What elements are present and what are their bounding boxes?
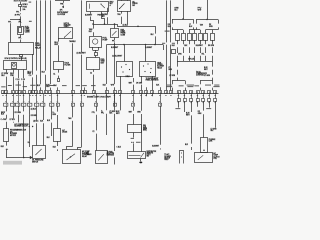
label tick (214, 84, 219, 87)
wire (21, 57, 23, 61)
wire bus feed (94, 25, 156, 27)
pin dot (143, 65, 144, 66)
wire (121, 17, 123, 24)
resistor blower (4, 129, 9, 142)
wire (20, 35, 22, 38)
wire (13, 121, 15, 124)
wire (20, 20, 22, 24)
label tick (206, 107, 211, 110)
wire (58, 45, 60, 61)
label tick (162, 42, 165, 45)
wire below fuse 3 (189, 40, 191, 44)
connector pin (20, 55, 23, 57)
fuse F6 (204, 34, 208, 41)
wire (18, 81, 20, 91)
ignition switch bar (89, 4, 91, 9)
wire pin (101, 12, 103, 14)
wire (196, 27, 198, 29)
wire (57, 141, 59, 146)
node junction (104, 23, 106, 25)
wire (152, 94, 154, 97)
wire (72, 121, 74, 147)
svg-text:BLK/WHT: BLK/WHT (152, 145, 159, 147)
node (70, 156, 71, 157)
wire below fuse 2 (183, 40, 185, 44)
node junction (92, 23, 94, 25)
wire to fuse 3 (189, 30, 191, 33)
wire stub (160, 87, 162, 90)
wire (50, 88, 52, 91)
contact node (100, 4, 101, 5)
ignition switch (87, 2, 109, 12)
fuse F3 (188, 34, 192, 41)
svg-text:UNIT: UNIT (101, 62, 105, 64)
node (133, 142, 134, 143)
label tick (8, 84, 12, 87)
label tick (62, 84, 67, 87)
wire (172, 19, 174, 24)
svg-text:YEL: YEL (201, 53, 204, 55)
wire (18, 107, 20, 112)
wire U-split right (200, 80, 213, 82)
wire split bar 2 (196, 19, 218, 21)
node (7, 149, 8, 150)
node junction (206, 19, 207, 20)
wire (205, 47, 207, 53)
label tick (131, 137, 134, 140)
in-line fuse holder (201, 138, 208, 153)
svg-text:PPL: PPL (92, 112, 95, 114)
wire (43, 107, 45, 121)
wire (196, 20, 198, 24)
wire (57, 107, 59, 112)
fuse element dot (203, 149, 205, 151)
ECM driver circle (13, 64, 16, 67)
wire splice bus (177, 61, 212, 63)
wire pin (63, 1, 65, 3)
wire (155, 36, 157, 44)
starter solenoid (195, 153, 213, 163)
wire (18, 115, 20, 123)
wire (133, 78, 135, 82)
wire (191, 101, 193, 112)
svg-text:C2: C2 (90, 73, 92, 75)
wire pump lead 2 (98, 47, 100, 50)
wire (133, 143, 135, 151)
fuel pump (90, 37, 102, 48)
wire (194, 56, 196, 61)
wire (133, 133, 135, 138)
fuse ECM-B (19, 5, 22, 7)
automotive wiring diagram schematic 220x165 (0, 0, 220, 165)
ground blob (139, 162, 142, 164)
label tick (15, 84, 21, 87)
label tick (91, 84, 96, 87)
label tick (187, 84, 195, 87)
wire (43, 123, 45, 145)
wire (20, 16, 22, 19)
wire (200, 88, 202, 91)
svg-text:C+: C+ (52, 112, 54, 114)
oil pressure switch (118, 1, 131, 12)
svg-text:TIMING: TIMING (86, 154, 92, 156)
wire (32, 77, 34, 90)
wire (58, 38, 60, 41)
wire pump lead 1 (92, 47, 94, 50)
svg-text:PPL: PPL (19, 21, 22, 23)
wire (183, 47, 185, 53)
wire to fuse 1 (177, 30, 179, 33)
svg-text:PPL: PPL (101, 112, 104, 114)
contact node (119, 8, 120, 9)
wire trunk (50, 0, 52, 84)
svg-text:BLK: BLK (47, 137, 50, 139)
pin dot (144, 71, 145, 72)
wire (114, 94, 116, 111)
wire split level2 a (172, 29, 183, 31)
instrument cluster box edge (55, 0, 70, 2)
wire (57, 115, 59, 129)
wire (141, 114, 143, 152)
wire below fuse 5 (200, 40, 202, 44)
wire (141, 85, 143, 91)
wire blower feed 2 (207, 0, 209, 20)
wire (191, 147, 193, 150)
wire splice bar (93, 50, 99, 52)
blower motor resistor (96, 151, 108, 164)
wire (45, 75, 47, 91)
pin dot (125, 64, 126, 65)
ignition coil (128, 125, 142, 133)
label tick (213, 85, 219, 88)
wire (63, 6, 65, 9)
wire (20, 13, 22, 14)
wire split level2 c (206, 29, 219, 31)
node (131, 142, 132, 143)
svg-text:SPLICE: SPLICE (188, 58, 195, 60)
wire (36, 107, 38, 121)
gauge switch (59, 28, 73, 39)
svg-text:BLK/: BLK/ (46, 85, 50, 87)
wire (212, 88, 214, 91)
wire (155, 26, 157, 33)
wire (6, 77, 8, 91)
wire (29, 108, 31, 115)
svg-text:CONN: CONN (121, 34, 126, 36)
wire (189, 47, 191, 53)
wire (203, 114, 205, 137)
wire (121, 11, 123, 14)
wire (81, 107, 83, 148)
svg-text:OIL: OIL (132, 2, 135, 4)
fuse F2 (182, 34, 186, 41)
svg-text:LT GRN: LT GRN (169, 75, 176, 77)
connector tap (172, 50, 176, 54)
pin numbers row 2 (5, 100, 6, 103)
svg-text:WHT: WHT (198, 9, 202, 11)
svg-text:BLK/WHT: BLK/WHT (196, 45, 203, 47)
svg-text:B+: B+ (28, 142, 30, 144)
ECM driver block (12, 63, 17, 69)
label tick (50, 84, 56, 87)
svg-text:CONTROLS: CONTROLS (196, 75, 204, 77)
wire U-split left (172, 80, 185, 82)
svg-text:C2 BLK/WHT: C2 BLK/WHT (112, 55, 122, 57)
svg-text:GRN: GRN (198, 113, 201, 115)
svg-text:(2) BLK/WHT: (2) BLK/WHT (77, 53, 86, 55)
wire (183, 56, 185, 61)
wire PNK/BLK trunk (36, 0, 38, 70)
wire (106, 94, 108, 111)
wire bulkhead rail (2, 93, 219, 95)
wire (6, 149, 8, 158)
connector C100 row 1 terminals (2, 91, 5, 94)
diode A/C (54, 129, 61, 142)
label tick (23, 85, 27, 88)
wire blower feed (183, 0, 185, 19)
fuel pump relay (9, 43, 34, 55)
module bar (129, 155, 141, 157)
svg-text:BLK/: BLK/ (204, 67, 208, 69)
wire (93, 32, 95, 36)
wire (177, 70, 179, 75)
label tick (136, 141, 141, 144)
wire to fuse 2 (183, 30, 185, 33)
wire bend (78, 148, 82, 150)
wire (106, 87, 108, 90)
svg-text:WHT: WHT (46, 86, 50, 88)
wire (6, 115, 8, 119)
wire (93, 75, 95, 91)
svg-text:DIODE: DIODE (62, 132, 67, 134)
svg-text:PNK/: PNK/ (110, 1, 114, 3)
fuse F5 (199, 34, 203, 41)
wire (197, 101, 199, 107)
svg-text:BLK/WHT: BLK/WHT (145, 47, 152, 49)
wire trunk (45, 0, 47, 70)
node (32, 126, 33, 127)
svg-text:J-2 CONNECTOR: J-2 CONNECTOR (14, 130, 27, 132)
label tick (29, 21, 32, 22)
wire (51, 107, 53, 120)
wire (172, 27, 174, 29)
label tick (205, 84, 211, 87)
label tick (172, 42, 175, 45)
wire (106, 114, 108, 135)
wire (212, 61, 214, 67)
label tick (29, 1, 32, 4)
svg-text:HOT IN START: HOT IN START (14, 0, 28, 3)
wire trunk right 2 (170, 0, 172, 42)
wire relay pin 2 (32, 54, 34, 75)
wire (96, 107, 98, 112)
wire (13, 77, 15, 91)
oil switch contact (120, 3, 125, 8)
node junction (145, 44, 147, 46)
svg-text:WHT: WHT (129, 111, 132, 113)
svg-text:BLOWER: BLOWER (10, 133, 18, 135)
node splice S1 (19, 19, 21, 21)
svg-text:CLUSTER: CLUSTER (57, 14, 66, 16)
connector C220 row 2 right terminals (178, 94, 180, 99)
svg-text:PPL: PPL (112, 41, 115, 43)
svg-text:(2) BLK: (2) BLK (123, 24, 129, 26)
wire to fuse 7 (212, 30, 214, 33)
wire (133, 114, 135, 125)
wire (29, 107, 31, 109)
label tick (167, 84, 172, 87)
wire (193, 19, 195, 24)
wire (23, 81, 25, 91)
svg-text:2 BLK: 2 BLK (126, 76, 130, 78)
svg-text:PPL: PPL (8, 21, 11, 23)
wire (6, 142, 8, 146)
svg-text:PRESS: PRESS (132, 3, 137, 5)
wire (218, 27, 220, 29)
node (6, 149, 7, 150)
wire split level2 b (189, 29, 200, 31)
wire trunk BLK/WHT (81, 0, 83, 52)
wire (194, 47, 196, 53)
module contact (141, 153, 145, 158)
svg-text:FILTER: FILTER (64, 65, 71, 67)
wire (91, 17, 94, 25)
svg-text:COIL: COIL (213, 158, 217, 160)
wire (58, 76, 60, 79)
svg-text:ORN: ORN (178, 53, 181, 55)
wire (212, 78, 214, 81)
node junction (23, 157, 25, 159)
wire (36, 123, 38, 145)
wire trunk right 1 (166, 0, 168, 42)
wire (141, 94, 143, 111)
label redacted bar (3, 161, 22, 165)
svg-text:39 PPL: 39 PPL (15, 14, 21, 16)
wire (218, 20, 220, 24)
wire (203, 101, 205, 111)
label tick (76, 84, 80, 87)
wire (177, 56, 179, 61)
wire (170, 45, 172, 91)
wire (114, 42, 116, 84)
wire stub (84, 87, 86, 90)
wire ground run (6, 157, 33, 159)
svg-text:WHT: WHT (101, 16, 105, 18)
wire (114, 38, 116, 40)
node (29, 126, 30, 127)
pin dot (181, 156, 182, 157)
wire ECM pin D (23, 70, 25, 79)
wire (172, 81, 174, 85)
wire (124, 45, 126, 62)
label tick DK GRN (165, 31, 170, 32)
wire (127, 11, 129, 24)
svg-text:WHT: WHT (129, 83, 132, 85)
wire trunk (40, 0, 42, 84)
wire to fuel pump (93, 24, 95, 29)
svg-text:GRN: GRN (137, 111, 140, 113)
svg-text:DK GRN: DK GRN (136, 83, 142, 85)
wire ECM pin C (18, 70, 20, 79)
svg-text:FUSE: FUSE (23, 6, 27, 8)
svg-text:C BLK: C BLK (117, 147, 121, 149)
fuel pump prime connector inner (19, 28, 22, 33)
svg-text:PPL: PPL (16, 11, 19, 13)
wire stub (57, 87, 59, 90)
ECM U1 (4, 61, 27, 70)
wire (184, 101, 186, 112)
svg-text:WHT: WHT (204, 69, 208, 71)
pin dot (121, 66, 122, 67)
label tick (175, 107, 180, 110)
svg-text:MOTOR: MOTOR (10, 135, 17, 137)
svg-text:BLK: BLK (211, 130, 214, 132)
svg-text:ECM B: ECM B (23, 4, 28, 6)
tach filter (54, 62, 64, 70)
wire (6, 122, 8, 129)
wire (212, 56, 214, 61)
wire (95, 50, 97, 53)
wire (93, 70, 95, 72)
wire (114, 157, 116, 164)
fuse F7 (211, 34, 215, 41)
svg-text:C-16: C-16 (21, 79, 25, 81)
arrowhead (30, 156, 33, 159)
svg-text:C-14: C-14 (16, 79, 20, 81)
wire (145, 45, 147, 62)
wire (200, 81, 202, 85)
distributor contact (67, 154, 76, 160)
wire bus2 drop (106, 45, 108, 85)
connector terminal (58, 79, 60, 82)
wire (114, 24, 116, 29)
wire (114, 87, 116, 90)
relay contact (112, 31, 117, 36)
node junction (154, 44, 156, 46)
wire (189, 56, 191, 61)
pin dot (129, 69, 130, 70)
wire ECM pin B (13, 70, 15, 73)
node junction (114, 23, 116, 25)
wire TAN/BLK (72, 43, 74, 90)
wire split bar (172, 19, 193, 21)
wire (20, 23, 22, 26)
wire pin (127, 0, 129, 2)
sender contact (35, 149, 41, 155)
wire to fuse 4 (194, 30, 196, 33)
switch gauge contact (65, 31, 72, 37)
wire to fuse 6 (205, 30, 207, 33)
svg-text:PPL: PPL (18, 38, 21, 40)
wire bend (67, 147, 73, 150)
label tick (194, 84, 199, 87)
wire (140, 159, 142, 162)
wire (178, 101, 180, 108)
wire (107, 17, 109, 24)
wire (185, 88, 187, 91)
wire (160, 148, 162, 149)
wire (209, 101, 211, 108)
svg-text:BLOWER CIRCUIT: BLOWER CIRCUIT (14, 126, 27, 128)
svg-text:BLK/WHT: BLK/WHT (85, 15, 92, 17)
svg-text:DK GRN: DK GRN (31, 115, 37, 117)
wire below fuse 7 (212, 40, 214, 44)
wire (107, 8, 109, 14)
node junction (137, 26, 139, 28)
pin dot (150, 72, 151, 73)
svg-text:LT GRN: LT GRN (204, 75, 211, 77)
pin dot (150, 68, 151, 69)
